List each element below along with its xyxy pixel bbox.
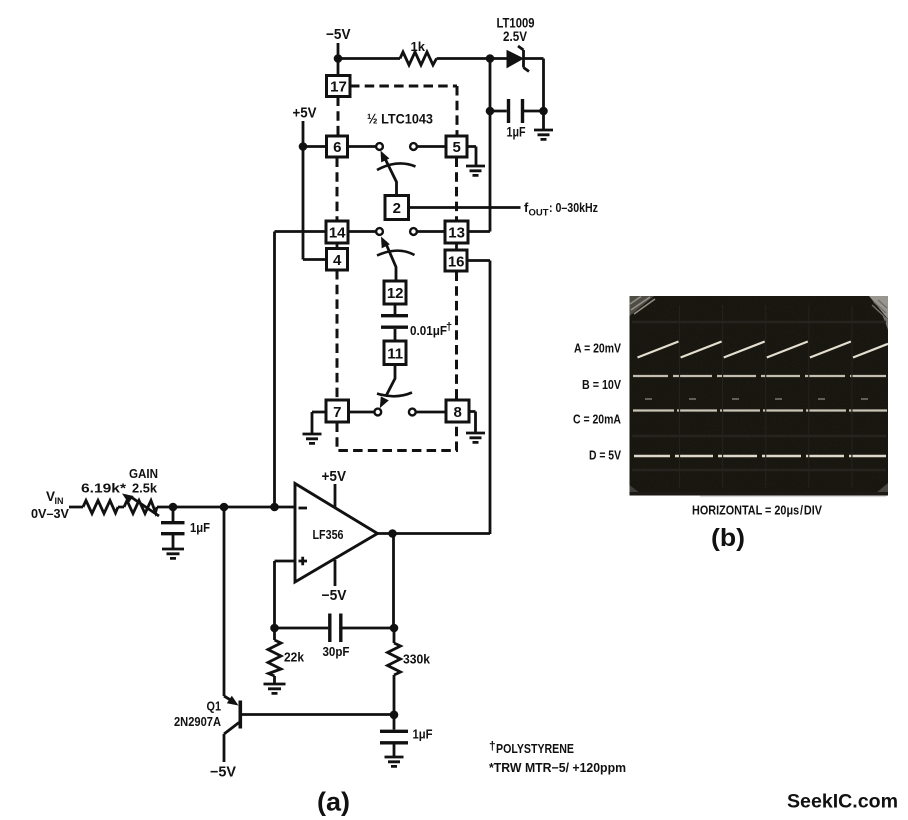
pin box 2	[385, 196, 409, 220]
svg-text:4: 4	[333, 252, 342, 269]
wire stub box13-box16	[455, 243, 458, 250]
wire 1k to LT1009 anode	[437, 57, 508, 60]
switch S2 throw arc	[377, 251, 415, 256]
capacitor C 1uF (top right)	[509, 99, 523, 123]
pin box 7	[326, 400, 349, 422]
junction at cap branch left	[486, 107, 495, 116]
resistor R 22k	[268, 628, 281, 683]
wire top rail left of 1k	[338, 57, 400, 60]
wire LT1009 cathode to right corner and down	[524, 59, 544, 112]
trace B dashed	[633, 375, 886, 377]
wire +5V rail down to box4	[303, 147, 327, 260]
wire cap to box11	[394, 329, 397, 341]
svg-text:C = 20mA: C = 20mA	[573, 412, 621, 427]
junction at VIN / minus input node	[270, 503, 279, 512]
svg-text:B = 10V: B = 10V	[582, 377, 621, 392]
svg-text:30pF: 30pF	[323, 644, 350, 659]
capacitor C 1uF (input)	[161, 523, 185, 534]
resistor R 6.19k	[83, 501, 118, 514]
wire fOUT output line	[409, 206, 521, 209]
wire output down to feedback	[392, 534, 395, 629]
resistor R 330k	[388, 628, 401, 715]
potentiometer GAIN 2.5k	[124, 501, 157, 514]
wire -5V stub to top rail	[337, 43, 340, 59]
wire op-amp plus input to feedback node	[275, 561, 296, 628]
svg-text:+5V: +5V	[293, 106, 317, 122]
svg-text:330k: 330k	[403, 652, 431, 667]
svg-text:0.01μF: 0.01μF	[410, 324, 447, 338]
pin box 17	[327, 76, 351, 97]
node switch1 left contact	[376, 143, 383, 150]
wire input cap stub	[172, 507, 175, 521]
junction at -5V rail / box17	[334, 54, 343, 63]
dashed outline right segments	[455, 158, 458, 401]
pin box 4	[327, 249, 348, 271]
svg-text:12: 12	[387, 285, 404, 302]
svg-text:POLYSTYRENE: POLYSTYRENE	[496, 742, 574, 756]
trace C	[633, 409, 887, 411]
wire contact to box13	[417, 230, 445, 233]
svg-text:LF356: LF356	[313, 527, 344, 542]
wire Q1 base line	[242, 713, 394, 716]
node switch3 left contact	[374, 409, 381, 416]
junction at 1k / LT1009 node	[486, 54, 495, 63]
dashed outline left segments	[337, 97, 338, 401]
svg-text:SeekIC.com: SeekIC.com	[787, 791, 898, 813]
capacitor C 0.01uF	[381, 316, 408, 328]
svg-text:1μF: 1μF	[507, 125, 526, 140]
node switch3 right contact	[409, 409, 416, 416]
svg-text:8: 8	[454, 404, 462, 421]
junction at VIN / 1uF cap	[169, 503, 178, 512]
svg-text:†: †	[446, 321, 452, 333]
svg-text:5: 5	[453, 139, 461, 156]
wire box12 to cap	[394, 304, 397, 314]
wire +5V stub	[302, 121, 305, 146]
wire cap to right rail	[524, 111, 544, 129]
svg-text:11: 11	[387, 346, 403, 363]
wire box14 to switch2	[348, 230, 376, 233]
wire box6 to switch contact	[348, 145, 376, 148]
switch S2 wiper arm	[385, 242, 396, 282]
faint graticule verticals	[680, 305, 852, 488]
dashed outline LTC1043 top	[350, 86, 457, 136]
svg-text:A = 20mV: A = 20mV	[574, 340, 621, 355]
svg-text:½ LTC1043: ½ LTC1043	[367, 112, 433, 127]
ground (box 7)	[303, 434, 322, 443]
svg-text:2.5k: 2.5k	[132, 481, 158, 496]
faint noise bands	[632, 322, 886, 470]
svg-text:6: 6	[333, 139, 341, 156]
switch S3 throw arc	[377, 393, 412, 397]
pin box 12	[384, 281, 406, 304]
capacitor C 1uF (bottom)	[380, 731, 408, 743]
svg-text:†: †	[489, 739, 496, 753]
svg-text:22k: 22k	[284, 650, 305, 665]
ground (input cap)	[162, 549, 184, 558]
junction at Q1 base / 330k / 1uF	[390, 711, 399, 720]
svg-text:17: 17	[330, 79, 347, 96]
svg-text:16: 16	[448, 254, 465, 271]
wire op-amp output	[377, 532, 490, 535]
wire box7 to switch3 contact	[349, 411, 375, 414]
svg-text:14: 14	[329, 225, 346, 242]
node switch2 left contact	[376, 228, 383, 235]
wire feedback node row	[275, 627, 395, 630]
svg-text:1k: 1k	[411, 39, 426, 54]
switch S1 throw arc	[377, 163, 416, 170]
wire cap branch left	[490, 110, 507, 113]
junction at op-amp output	[388, 529, 397, 538]
svg-text:0V–3V: 0V–3V	[31, 506, 69, 521]
node switch1 right contact	[410, 143, 417, 150]
ground (box 8)	[466, 433, 485, 442]
node switch2 right contact	[410, 228, 417, 235]
svg-text:D = 5V: D = 5V	[589, 448, 621, 463]
pin box 5	[446, 136, 467, 157]
svg-text:−5V: −5V	[210, 765, 236, 781]
svg-text:GAIN: GAIN	[129, 466, 158, 481]
ragged bottom edge	[630, 492, 889, 496]
wire contact to box8	[416, 411, 446, 414]
trace D dashed	[634, 455, 886, 458]
zener diode LT1009 2.5V	[507, 51, 523, 68]
junction at cap branch right	[539, 107, 548, 116]
wire box8 right to ground	[469, 412, 476, 433]
svg-text:2: 2	[393, 200, 401, 217]
resistor R 1k	[400, 52, 437, 65]
wire cap bottom stub	[393, 715, 396, 730]
svg-text:1μF: 1μF	[413, 727, 433, 742]
wire VIN input line	[69, 506, 295, 509]
junction at feedback node right	[390, 624, 399, 633]
SCOPE PHOTO	[630, 296, 889, 497]
junction at VIN / Q1 emitter	[220, 503, 229, 512]
svg-text:2.5V: 2.5V	[503, 29, 527, 44]
svg-text:OUT: OUT	[529, 208, 549, 219]
pin box 8	[446, 400, 469, 422]
svg-text:13: 13	[448, 225, 465, 242]
film grain	[630, 296, 889, 493]
pin box 16	[445, 250, 467, 271]
wire box5 to ground	[467, 147, 476, 166]
wire stub box14-box4	[336, 243, 339, 249]
svg-text:2N2907A: 2N2907A	[174, 715, 221, 729]
wire box14 row to minus node vertical	[275, 232, 327, 508]
svg-text:(a): (a)	[317, 787, 350, 817]
svg-text:: 0–30kHz: : 0–30kHz	[549, 200, 598, 215]
trace A sawtooth	[638, 342, 889, 358]
ground (22k)	[264, 684, 286, 693]
oscilloscope photo background	[630, 296, 889, 493]
trace pulses between B and C	[645, 398, 868, 400]
op-amp U1 LF356	[295, 484, 378, 583]
ground (below 1uF top right)	[534, 130, 553, 139]
svg-text:−5V: −5V	[322, 588, 347, 604]
svg-text:+5V: +5V	[322, 469, 347, 485]
pin box 14	[326, 221, 348, 243]
wire op-amp -5V stub	[334, 560, 337, 586]
svg-text:(b): (b)	[711, 524, 745, 552]
wire box16 right and down to op-amp output	[467, 261, 490, 535]
svg-text:7: 7	[333, 404, 341, 421]
pin box 11	[384, 341, 406, 365]
svg-text:6.19k*: 6.19k*	[81, 481, 127, 496]
wire box13 to right rail	[468, 230, 490, 233]
scope channel labels	[573, 340, 621, 462]
wire Q1 emitter vertical	[223, 507, 226, 696]
svg-text:−5V: −5V	[326, 27, 351, 43]
junction at +5V rail / box6	[299, 142, 308, 151]
junction at feedback node left	[270, 624, 279, 633]
wire box17 stub	[337, 59, 340, 76]
svg-text:*TRW MTR−5/ +120ppm: *TRW MTR−5/ +120ppm	[489, 761, 626, 775]
ground (box 5)	[466, 166, 485, 175]
wire +5V to box6	[303, 145, 327, 148]
pin box 6	[327, 136, 348, 157]
pin box 13	[445, 221, 468, 243]
switch S3 wiper arm	[386, 365, 395, 397]
capacitor C 30pF	[330, 614, 341, 643]
wire junction at 1k/LT1009 down rail	[489, 59, 492, 232]
switch S1 wiper arm	[385, 158, 397, 196]
ground (bottom cap)	[385, 757, 404, 766]
transistor Q1 2N2907A	[224, 696, 233, 702]
wire box7 left to ground	[312, 412, 326, 433]
svg-text:IN: IN	[55, 496, 64, 506]
svg-text:Q1: Q1	[207, 700, 222, 714]
svg-text:HORIZONTAL = 20μs / DIV: HORIZONTAL = 20μs / DIV	[692, 504, 823, 518]
svg-text:1μF: 1μF	[190, 520, 210, 535]
dashed outline bottom	[337, 423, 457, 451]
wire contact to box5	[417, 145, 446, 148]
wire op-amp +5V stub	[334, 484, 337, 507]
wire cap to ground	[172, 535, 175, 548]
